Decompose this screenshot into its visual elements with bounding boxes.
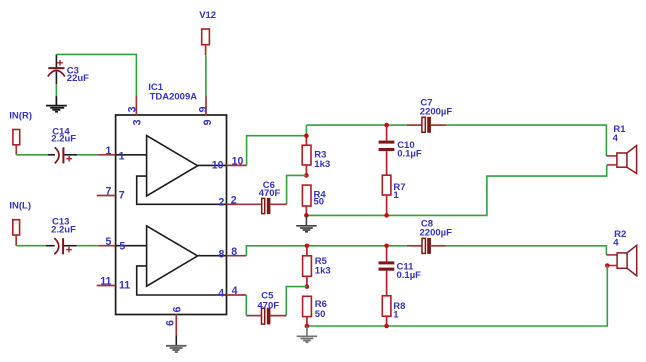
wire node R3 up to top rail	[305, 125, 307, 136]
resistor R4 (50 ohm feedback, right channel)	[302, 185, 311, 215]
op-amp A non-inverting input line (pin 1 internal)	[116, 154, 147, 156]
svg-text:1: 1	[393, 190, 399, 201]
wire V12 to pin 9	[205, 55, 207, 96]
wire C5 right plate to node	[270, 315, 286, 317]
capacitor C3 (22uF electrolytic, supply decoupling)	[48, 54, 65, 84]
svg-text:2200µF: 2200µF	[420, 107, 453, 118]
op-amp B output line (pin 8 internal)	[198, 255, 227, 257]
wire pin 4 down to C5	[245, 295, 247, 316]
node dot C10 top	[384, 123, 389, 128]
wire C11 node to C8	[387, 245, 407, 247]
svg-text:11: 11	[100, 276, 111, 288]
speaker R2 (4 ohm load, left channel)	[617, 245, 637, 275]
wire pin 6 to ground	[175, 335, 177, 345]
wire IN(R) to C14	[16, 154, 48, 156]
node dot R5 top	[305, 244, 310, 249]
input connector IN(L)	[13, 220, 20, 246]
wire C8 right plate out	[431, 245, 445, 247]
speaker R1 (4 ohm load, right channel)	[617, 146, 637, 174]
capacitor C8 (2200uF output coupling, left channel)	[422, 238, 431, 254]
svg-text:0.1µF: 0.1µF	[397, 270, 422, 281]
op-amp A inverting input feedback line to pin 2	[137, 176, 227, 204]
stub from R1 lower terminal	[607, 164, 618, 166]
op-amp B non-inverting input line (pin 5 internal)	[116, 245, 147, 247]
wire C7 right plate out	[431, 124, 446, 126]
node dot C11 top	[384, 244, 389, 249]
svg-text:10: 10	[212, 160, 224, 172]
svg-text:9: 9	[197, 106, 209, 112]
pin 1 stub	[98, 154, 116, 156]
pin 5 stub	[98, 245, 116, 247]
svg-text:470F: 470F	[257, 300, 279, 311]
svg-text:7: 7	[105, 186, 111, 198]
svg-text:2.2uF: 2.2uF	[51, 134, 76, 145]
svg-text:2: 2	[218, 196, 224, 208]
wire segment into C8 left plate	[407, 245, 422, 247]
capacitor C14 (2.2uF input coupling, right channel)	[48, 147, 77, 163]
svg-text:4: 4	[613, 133, 619, 144]
op-amp B inverting input feedback line to pin 4	[137, 266, 227, 295]
pin 11 stub	[97, 285, 116, 287]
wire R5/R6 node to C5	[286, 287, 307, 316]
svg-text:6: 6	[164, 320, 176, 326]
wire C3 top to pin 3	[56, 54, 136, 96]
wire top rail to C7	[306, 124, 407, 126]
svg-text:4: 4	[613, 238, 619, 249]
svg-text:V12: V12	[199, 10, 216, 21]
ground below pin 6	[166, 346, 186, 353]
supply connector V12	[202, 29, 210, 55]
svg-text:10: 10	[232, 156, 244, 168]
svg-text:2.2uF: 2.2uF	[51, 224, 76, 235]
wire segment into C7 left plate	[407, 124, 422, 126]
resistor R6 (50 ohm feedback, left channel)	[303, 296, 312, 326]
node dot R5/R6 junction	[305, 284, 310, 289]
stub into R1 upper terminal	[606, 155, 617, 157]
wire R1 lower terminal to ground rail	[306, 165, 606, 216]
pin 6 stub	[175, 314, 177, 335]
wire C8 to speaker R2 upper terminal	[446, 246, 607, 255]
wire pin 8 up to channel-2 rail	[246, 246, 307, 256]
svg-text:5: 5	[119, 240, 125, 252]
svg-text:22uF: 22uF	[67, 73, 89, 84]
ground below R4	[296, 215, 316, 232]
wire IN(L) to C13	[16, 245, 46, 247]
node dot R6 bottom	[305, 324, 310, 329]
op-amp B (lower amplifier triangle)	[147, 226, 198, 286]
node dot R2 lower terminal	[605, 263, 610, 268]
capacitor C13 (2.2uF input coupling, left channel)	[46, 238, 77, 254]
resistor R3 (1k3 feedback, right channel)	[302, 136, 311, 176]
svg-text:11: 11	[119, 279, 130, 291]
wire R2 lower terminal to channel-2 ground rail	[307, 266, 607, 327]
svg-text:50: 50	[314, 197, 325, 208]
svg-text:1k3: 1k3	[314, 159, 330, 170]
svg-text:2: 2	[231, 194, 237, 206]
pin 10 stub	[227, 164, 247, 166]
svg-text:4: 4	[218, 288, 224, 300]
capacitor C11 (0.1uF Zobel, left channel)	[379, 246, 395, 296]
svg-text:50: 50	[315, 309, 326, 320]
node dot R8 bottom	[384, 324, 389, 329]
wire R3/R4 node to C6	[287, 175, 307, 204]
capacitor C6 (470F feedback, right channel)	[262, 198, 271, 214]
svg-text:9: 9	[202, 119, 214, 125]
pin 2 stub	[227, 203, 262, 205]
wire pin 10 up to node R3 (right channel output net)	[247, 136, 307, 166]
svg-text:0.1µF: 0.1µF	[397, 148, 422, 159]
capacitor C10 (0.1uF Zobel, right channel)	[379, 125, 395, 175]
capacitor C7 (2200uF output coupling, right channel)	[422, 117, 431, 133]
node dot R3 top	[304, 133, 309, 138]
svg-text:4: 4	[232, 285, 238, 297]
node dot R4 bottom	[304, 213, 309, 218]
svg-text:TDA2009A: TDA2009A	[150, 92, 198, 103]
resistor R5 (1k3 feedback, left channel)	[303, 246, 312, 287]
resistor R7 (1 ohm Zobel, right channel)	[382, 175, 391, 215]
wire C7 to speaker R1 upper terminal	[446, 125, 606, 156]
wire C3 bottom to ground	[55, 84, 57, 96]
wire C6 right plate to node	[270, 203, 286, 205]
op-amp IC U1 body (IC1 TDA2009A)	[116, 115, 227, 315]
pin 4 stub	[227, 294, 247, 296]
svg-text:6: 6	[171, 307, 183, 313]
svg-text:470F: 470F	[259, 188, 281, 199]
svg-text:1: 1	[393, 309, 399, 320]
op-amp A (upper amplifier triangle)	[147, 136, 198, 197]
stub from R2 lower terminal	[607, 265, 617, 267]
pin 8 stub	[227, 255, 247, 257]
svg-text:3: 3	[132, 119, 144, 125]
svg-text:5: 5	[105, 236, 111, 248]
pin 3 stub	[135, 96, 137, 116]
node dot R3/R4 junction	[304, 173, 309, 178]
wire rail R5 node to C11 node	[307, 245, 387, 247]
pin 9 stub	[205, 96, 207, 116]
svg-text:IN(R): IN(R)	[9, 110, 32, 121]
svg-text:8: 8	[231, 246, 237, 258]
svg-text:8: 8	[218, 248, 224, 260]
svg-text:1k3: 1k3	[315, 265, 331, 276]
ground below R6	[297, 326, 317, 343]
svg-text:2200µF: 2200µF	[420, 228, 453, 239]
op-amp A output line (pin 10 internal)	[198, 164, 227, 166]
svg-text:1: 1	[105, 145, 111, 157]
node dot R7 bottom	[384, 213, 389, 218]
pin 7 stub	[97, 195, 116, 197]
svg-text:7: 7	[119, 190, 125, 202]
stub into R2 upper terminal	[606, 254, 617, 256]
resistor R8 (1 ohm Zobel, left channel)	[382, 296, 391, 326]
wire C5 left plate to pin 4	[246, 315, 261, 317]
wire C13 to pin 5	[77, 245, 98, 247]
svg-text:IN(L): IN(L)	[9, 201, 31, 212]
svg-text:1: 1	[119, 150, 125, 162]
svg-text:3: 3	[126, 106, 138, 112]
capacitor C5 (470F feedback, left channel)	[262, 308, 271, 325]
wire C14 to pin 1	[77, 154, 98, 156]
input connector IN(R)	[13, 130, 20, 155]
ground below C3	[46, 96, 67, 113]
